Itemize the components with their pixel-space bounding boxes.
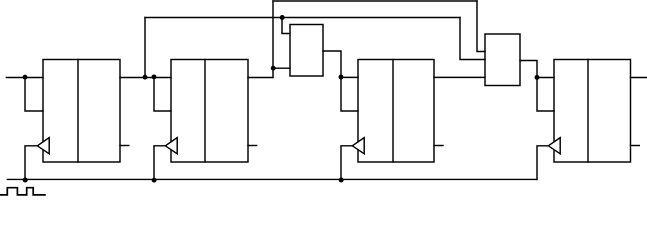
node T4 (535, 75, 540, 80)
node Q1-B (152, 74, 157, 79)
clock triangle U2 (165, 138, 177, 154)
clock triangle U1 (37, 138, 49, 154)
wire FF2 Q output (248, 77, 273, 79)
node clock U1 (23, 177, 28, 182)
node clock U2 (152, 178, 157, 183)
wire FF1 Q to FF2 J (120, 77, 171, 79)
wire T input to FF1 J (6, 77, 43, 79)
clock source CLK waveform (1, 188, 45, 195)
wire Q1 top bus (145, 17, 460, 19)
node Q1 bus tap (280, 15, 285, 20)
wire clock to U2 (154, 146, 165, 180)
wire Q2 top bus (273, 0, 477, 2)
flip-flop U4 (554, 60, 631, 163)
wire clock to U3 (341, 146, 352, 180)
node Q1-A (143, 75, 148, 80)
wire Q1 riser to top bus (144, 18, 146, 78)
node input junction (23, 75, 28, 80)
wire U6 output to FF4 (520, 61, 554, 112)
wire FF4 Q output (631, 77, 647, 79)
wire Q1 tap to gate U5 input A (282, 18, 290, 34)
and-gate U5 (290, 25, 323, 77)
wire input to FF1 K (25, 78, 43, 112)
wire T3 to FF3 J (341, 76, 358, 78)
wire U5 output to FF3 (323, 51, 358, 111)
node Q2 tap (271, 66, 276, 71)
and-gate U6 (485, 34, 520, 86)
pin Q-bar stub U2 (248, 145, 257, 147)
clock triangle U4 (548, 138, 560, 154)
node T3 (339, 75, 344, 80)
pin Q-bar stub U3 (434, 145, 443, 147)
wire clock bus (7, 178, 537, 180)
wire FF2 K tie (154, 78, 171, 112)
wire clock to U4 (537, 146, 548, 180)
flip-flop U2 (171, 60, 248, 163)
wire Q2 tap to gate U5 input B (273, 67, 290, 69)
node clock U3 (339, 178, 344, 183)
wire Q2 bus to gate U6 input A (477, 1, 485, 52)
wire Q1 bus to gate U6 input (460, 18, 485, 60)
wire T4 to FF4 J (537, 77, 554, 79)
flip-flop U3 (358, 60, 434, 163)
clock triangle U3 (352, 138, 364, 154)
pin Q-bar stub U1 (120, 145, 129, 147)
wire Q2 riser (272, 1, 274, 78)
flip-flop U1 (43, 60, 120, 163)
wire clock to U1 (25, 146, 37, 180)
wire FF3 Q to gate U6 input C (434, 76, 485, 78)
pin Q-bar stub U4 (631, 145, 640, 147)
